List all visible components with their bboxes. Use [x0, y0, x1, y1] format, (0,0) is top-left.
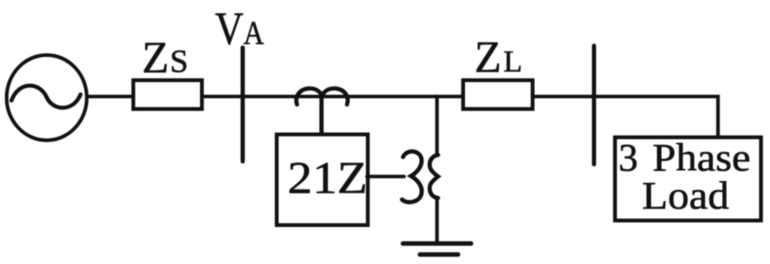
wire ZL to bus B [535, 95, 595, 99]
wire Zs to bus A [204, 95, 243, 99]
svg-text:3: 3 [619, 137, 639, 180]
svg-text:Load: Load [642, 175, 730, 218]
wire bus B to load [594, 97, 718, 138]
svg-text:ZL: ZL [475, 33, 523, 82]
impedance Zs [133, 80, 202, 109]
wire bus A to CT [243, 95, 299, 99]
wire source to Zs [89, 95, 132, 99]
ground [403, 244, 471, 255]
wire junction to ZL [437, 95, 461, 99]
wire CT secondary to relay [319, 98, 323, 133]
label 3 Phase Load [619, 137, 751, 218]
ac source G1 [7, 55, 87, 140]
relay 21Z [277, 134, 368, 225]
bus A [241, 48, 245, 162]
voltage transformer primary winding [402, 151, 422, 202]
impedance ZL [463, 80, 532, 109]
svg-text:Phase: Phase [653, 137, 751, 180]
voltage transformer secondary winding [430, 155, 438, 198]
wire VT to ground [435, 198, 439, 242]
wire junction to VT [435, 97, 439, 156]
load box [615, 137, 761, 220]
svg-text:21Z: 21Z [288, 152, 368, 203]
CT current transformer [296, 88, 347, 104]
bus B [592, 46, 596, 165]
svg-text:VA: VA [215, 3, 264, 55]
wire CT to junction [298, 95, 437, 99]
wire relay to VT [367, 175, 404, 179]
svg-text:ZS: ZS [142, 33, 188, 82]
